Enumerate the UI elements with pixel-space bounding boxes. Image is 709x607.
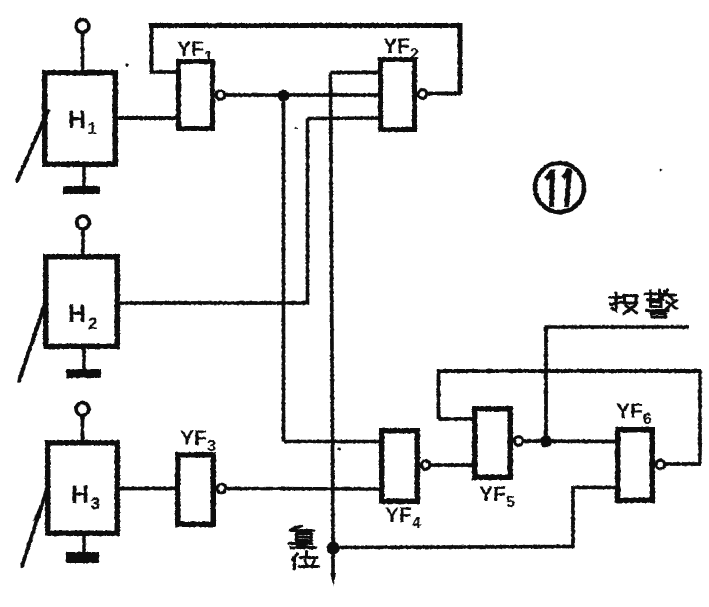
gate YF5 bbox=[475, 409, 523, 478]
svg-text:H: H bbox=[68, 106, 86, 134]
svg-text:6: 6 bbox=[643, 411, 652, 428]
wire YF2 output bbox=[426, 92, 461, 96]
svg-text:5: 5 bbox=[506, 494, 515, 511]
gate YF3 bbox=[178, 455, 226, 525]
wire YF2 lower input horizontal bbox=[308, 116, 380, 120]
wire left loop vertical bbox=[150, 24, 154, 72]
wire right loop vertical bbox=[458, 23, 463, 94]
label alarm (Chinese: bao jing) bbox=[610, 293, 637, 314]
sensor H3 bbox=[22, 443, 117, 566]
wire YF6 output bbox=[666, 462, 701, 466]
wire vertical from H2 output up bbox=[306, 119, 310, 304]
wire YF1 upper input bbox=[150, 70, 177, 74]
sensor H2 bbox=[19, 257, 117, 381]
svg-text:3: 3 bbox=[91, 494, 100, 513]
svg-text:YF: YF bbox=[177, 38, 204, 61]
wire YF5 upper input horizontal bbox=[439, 417, 474, 421]
terminal (H2 top) bbox=[77, 216, 90, 255]
ground (H1) bbox=[63, 166, 100, 194]
svg-text:YF: YF bbox=[479, 483, 506, 506]
wire YF6 lower input horizontal bbox=[573, 486, 616, 490]
wire vertical feedback drop to YF5 bbox=[437, 370, 441, 420]
svg-text:YF: YF bbox=[385, 504, 412, 527]
wire right feedback vertical bbox=[698, 370, 702, 464]
junction node B (YF5 output / alarm tap) bbox=[540, 436, 552, 448]
gate YF4 bbox=[382, 431, 430, 502]
ground (H3) bbox=[66, 535, 99, 563]
wire YF5 output to YF6 upper input bbox=[523, 439, 616, 443]
svg-text:1: 1 bbox=[204, 49, 213, 66]
wire YF2 upper input horizontal bbox=[331, 71, 380, 75]
wire YF4 output to YF5 lower input bbox=[430, 463, 473, 467]
figure number 11 in circle bbox=[535, 163, 584, 212]
wire alarm horizontal bbox=[545, 325, 690, 329]
terminal (H3 top) bbox=[76, 403, 89, 441]
scan speckles bbox=[126, 64, 129, 67]
wire node A to YF4 upper input bbox=[284, 440, 381, 444]
junction node A (YF1 output) bbox=[278, 90, 290, 102]
wire latch feedback horizontal bbox=[437, 369, 702, 373]
gate YF1 bbox=[179, 62, 225, 129]
wire vertical from node A down bbox=[282, 95, 286, 442]
terminal (H1 top) bbox=[76, 20, 89, 71]
svg-text:YF: YF bbox=[383, 35, 410, 58]
wire bottom reset horizontal bbox=[333, 547, 575, 548]
label reset (Chinese: fu wei) bbox=[289, 526, 319, 569]
svg-text:YF: YF bbox=[180, 427, 207, 450]
wire reset input stub with arrow end bbox=[330, 548, 336, 586]
wire alarm vertical riser bbox=[544, 327, 548, 441]
svg-text:H: H bbox=[71, 481, 89, 509]
sensor H1 bbox=[17, 73, 115, 181]
wire YF3 output to YF4 lower input bbox=[227, 487, 380, 491]
svg-text:H: H bbox=[68, 300, 86, 328]
ground (H2) bbox=[66, 348, 101, 378]
gate YF2 bbox=[381, 60, 427, 130]
svg-text:4: 4 bbox=[412, 515, 421, 532]
wire top feedback horizontal (YF2 out to YF1 in) bbox=[149, 23, 463, 28]
svg-text:YF: YF bbox=[616, 400, 643, 423]
wire H3 output to YF3 bbox=[118, 487, 176, 491]
wire YF1 output to YF2 middle input bbox=[224, 93, 379, 97]
wire H2 output bbox=[118, 301, 309, 305]
wire vertical from bottom reset line to YF6 bbox=[571, 486, 575, 547]
svg-text:2: 2 bbox=[88, 314, 97, 333]
svg-text:2: 2 bbox=[410, 46, 419, 63]
junction node C (reset) bbox=[327, 542, 340, 555]
svg-text:3: 3 bbox=[207, 438, 216, 455]
gate YF6 bbox=[618, 430, 665, 501]
wire H1 output to YF1 bbox=[117, 116, 177, 120]
svg-text:1: 1 bbox=[88, 119, 97, 138]
wire vertical reset riser to YF2 upper input bbox=[331, 73, 334, 549]
